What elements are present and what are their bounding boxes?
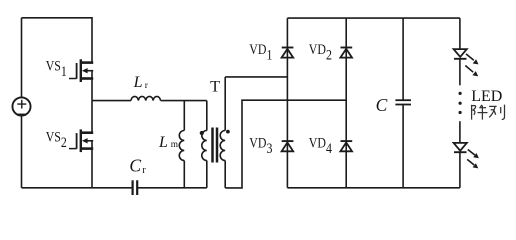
wire Lr to primary [161,100,207,102]
DC source V1 [12,97,30,115]
wire LED branch lower stub [459,121,461,143]
svg-text:L: L [133,74,143,91]
svg-text:T: T [210,77,220,96]
ellipsis dots LED array [459,92,462,114]
wire secondary top to bridge node A [225,76,287,78]
wire left rail top segment [21,18,23,97]
inductor Lm [179,101,184,188]
diode VD1 [282,48,294,58]
diode VD3 [282,141,294,151]
wire bridge bottom rail [287,187,460,189]
transformer T primary winding [202,101,207,188]
LED D2 [454,143,479,169]
wire bottom rail left circuit [22,187,133,189]
svg-text:VS1: VS1 [46,58,67,80]
svg-text:C: C [129,155,141,175]
wire mid node to Lr [92,100,131,102]
wire Cr to transformer bottom [137,187,207,189]
wire bridge second branch [345,18,347,188]
wire LED branch bottom [459,152,461,188]
svg-text:VD3: VD3 [249,134,272,156]
svg-text:L: L [158,134,168,151]
svg-text:C: C [376,95,388,115]
wire bridge top rail [287,17,460,19]
transformer core [213,128,218,163]
svg-text:LED: LED [471,88,502,105]
capacitor C [395,100,411,104]
diode VD2 [340,48,352,58]
transformer primary polarity dot [200,131,204,135]
transformer secondary polarity dot [226,130,230,134]
inductor Lr [131,96,161,100]
transformer T secondary winding [220,77,225,188]
label LED array chinese zhen lie [472,105,505,120]
MOSFET VS1 [69,17,93,101]
svg-text:r: r [142,165,146,176]
capacitor Cr [133,180,138,195]
wire secondary bottom to bridge node B [225,100,346,188]
wire LED branch upper stub [459,59,461,86]
svg-text:r: r [145,81,149,91]
diode VD4 [340,141,352,151]
wire left rail bottom segment [21,116,23,188]
svg-text:VD2: VD2 [309,41,332,63]
LED D1 [454,49,479,76]
wire top rail left circuit [22,17,93,19]
wire LED branch top [459,18,461,49]
svg-text:VS2: VS2 [46,128,67,150]
capacitor C branch wire top [402,18,404,100]
svg-text:VD1: VD1 [249,41,272,63]
wire bridge left branch [286,18,288,188]
capacitor C branch wire bottom [402,105,404,188]
MOSFET VS2 [69,101,93,188]
svg-text:VD4: VD4 [309,134,332,156]
svg-text:m: m [171,140,179,150]
